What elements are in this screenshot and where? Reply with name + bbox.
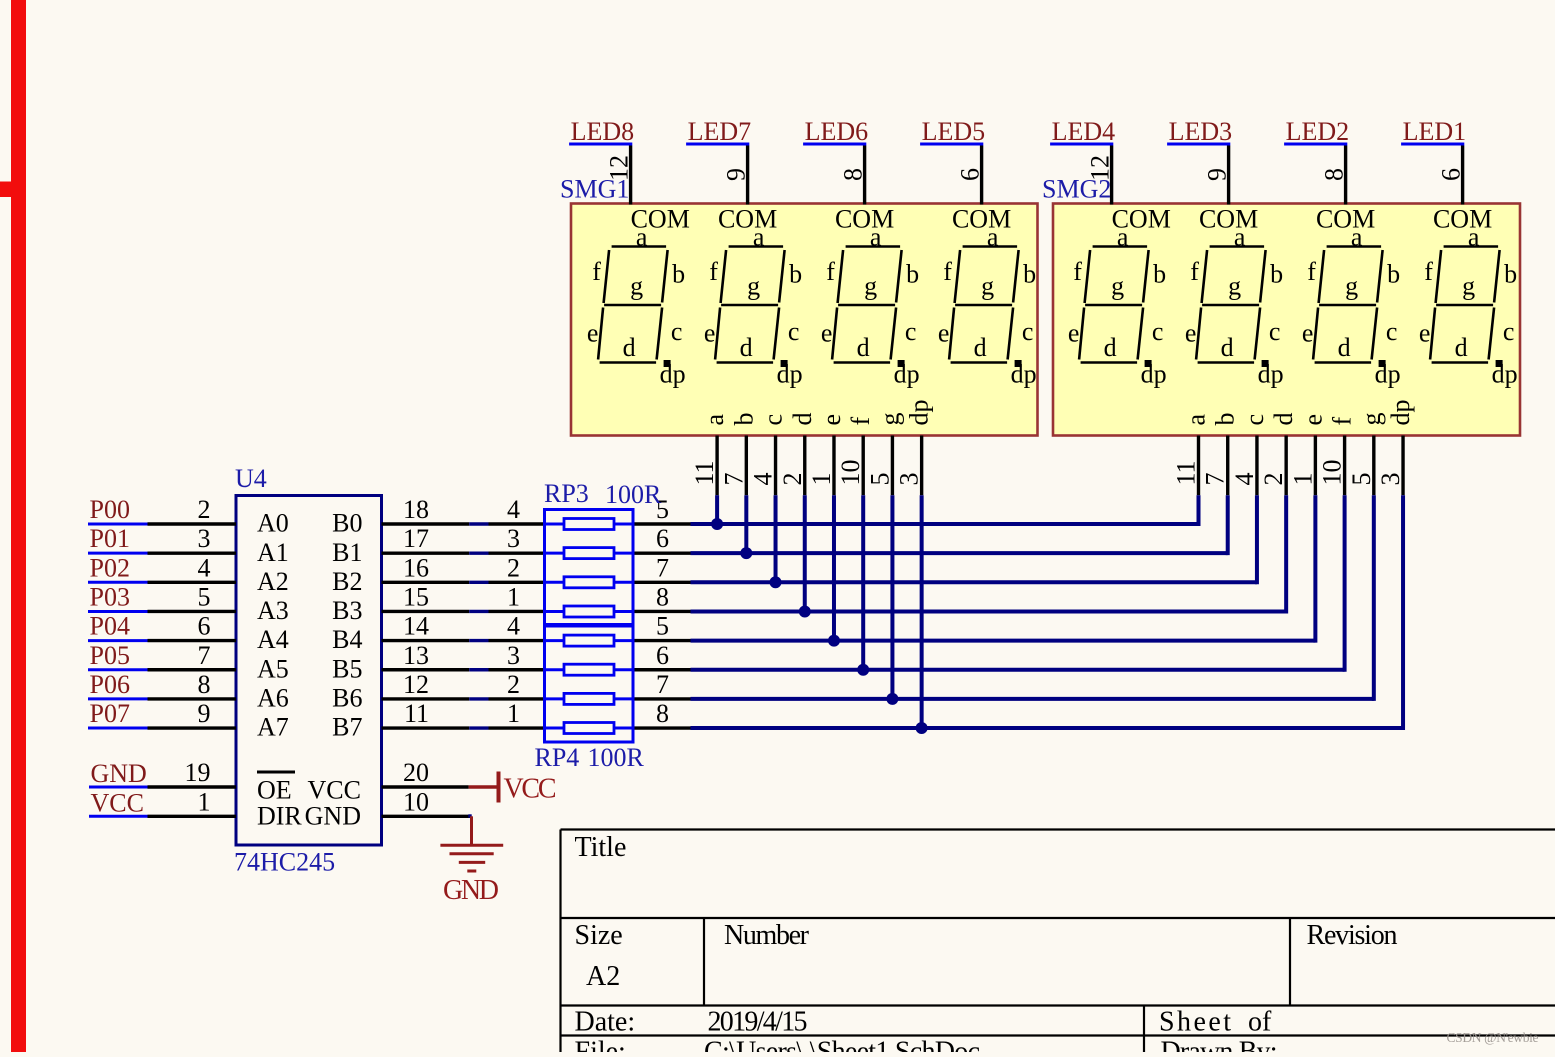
svg-text:1: 1 [198,787,211,816]
resistor pack RP4 body [545,625,634,743]
svg-text:B7: B7 [332,713,362,742]
svg-text:c: c [1152,317,1164,346]
7-seg digit SMG1.4 segments [949,247,1019,363]
wire SMG2 col 5 down [1313,495,1317,642]
svg-text:b: b [1211,413,1240,426]
svg-text:dp: dp [1492,360,1518,389]
U4 pin 12 stub [382,697,470,700]
svg-text:b: b [789,260,802,289]
svg-text:dp: dp [1258,360,1284,389]
svg-text:COM: COM [1433,205,1492,234]
svg-text:d: d [857,333,870,362]
svg-text:d: d [740,333,753,362]
svg-text:3: 3 [895,473,924,486]
svg-text:Sheet: Sheet [1159,1007,1231,1038]
svg-text:b: b [1387,260,1400,289]
7-seg digit SMG2.3 segments [1313,247,1383,363]
net label LED6 underline [803,143,866,146]
svg-text:19: 19 [185,758,211,787]
svg-text:LED7: LED7 [688,117,752,146]
wire LED1 to COM pin [1461,146,1464,205]
svg-text:4: 4 [198,553,211,582]
svg-text:a: a [1351,223,1363,252]
net label P02 underline [88,581,148,584]
display module SMG2 body [1053,204,1520,436]
IC U4 74HC245 body [236,496,382,846]
svg-text:e: e [1185,319,1197,348]
svg-text:VCC: VCC [308,776,361,805]
wire LED3 to COM pin [1227,146,1230,205]
svg-text:18: 18 [403,495,429,524]
display SMG2 pin stub col 4 [1284,436,1287,496]
svg-text:17: 17 [403,524,429,553]
svg-text:2: 2 [507,670,520,699]
U4 pin 10 stub [382,815,471,818]
wire SMG1 col 4 down [803,495,807,611]
svg-text:d: d [623,333,636,362]
wire U4 B1 to RP [469,551,488,554]
svg-text:Title: Title [575,832,627,863]
svg-text:7: 7 [656,670,669,699]
dp dot SMG2.1 [1145,360,1152,367]
resistor RP3 element 1 [545,523,565,526]
display SMG1 pin stub col 7 [891,436,894,496]
svg-text:CSDN @N'ewbie: CSDN @N'ewbie [1447,1030,1539,1045]
svg-text:10: 10 [1318,460,1347,486]
svg-text:6: 6 [198,612,211,641]
svg-text:A1: A1 [257,538,289,567]
display SMG2 pin stub col 6 [1343,436,1346,496]
svg-text:a: a [753,223,765,252]
U4 pin 20 stub [382,785,469,788]
svg-text:B4: B4 [332,625,362,654]
svg-text:a: a [700,414,729,426]
resistor RP3 element 2 [545,552,565,555]
svg-text:COM: COM [835,205,894,234]
svg-text:d: d [1269,413,1298,426]
svg-text:g: g [630,271,643,300]
display SMG1 pin stub col 1 [715,436,718,496]
svg-text:14: 14 [403,612,429,641]
7-seg digit SMG1.2 segments [715,247,785,363]
svg-text:2: 2 [778,473,807,486]
svg-text:RP4: RP4 [535,743,580,772]
svg-text:g: g [875,413,904,426]
svg-text:e: e [704,319,716,348]
svg-text:b: b [1153,260,1166,289]
svg-text:2019/4/15: 2019/4/15 [708,1007,808,1038]
svg-text:LED1: LED1 [1403,117,1467,146]
wire SMG1 col 7 down [890,495,894,699]
svg-text:3: 3 [507,641,520,670]
svg-text:COM: COM [1199,205,1258,234]
dp dot SMG2.3 [1379,360,1386,367]
U4 pin 17 stub [382,551,470,554]
svg-text:12: 12 [1086,155,1115,181]
svg-text:9: 9 [722,168,751,181]
svg-text:b: b [906,260,919,289]
junction dot row 2 [740,547,752,559]
bus wire row 6 [691,668,1345,672]
svg-text:B2: B2 [332,567,362,596]
RP pin 2 stub [489,697,545,700]
svg-text:11: 11 [404,699,429,728]
junction dot row 8 [916,722,928,734]
svg-text:d: d [974,333,987,362]
svg-text:f: f [592,257,601,286]
svg-text:LED2: LED2 [1286,117,1350,146]
svg-text:P03: P03 [90,582,130,611]
net label VCC underline [89,815,148,818]
wire U4 B4 to RP [469,639,488,642]
wire P03 to pin 5 [148,610,237,613]
svg-text:4: 4 [507,612,520,641]
svg-text:4: 4 [749,473,778,486]
RP pin 3 stub [489,668,545,671]
resistor pack RP3 body [545,510,634,627]
net label LED7 underline [686,143,749,146]
segment labels SMG2.1 [1068,205,1171,389]
svg-text:GND: GND [91,759,147,788]
svg-text:8: 8 [656,699,669,728]
svg-text:A2: A2 [257,567,289,596]
svg-text:b: b [672,260,685,289]
svg-text:A7: A7 [257,713,289,742]
svg-text:c: c [1386,317,1398,346]
display SMG1 pin stub col 3 [774,436,777,496]
U4 pin 16 stub [382,581,470,584]
RP pin 7 stub [633,581,691,584]
7-seg digit SMG2.2 segments [1196,247,1266,363]
svg-text:20: 20 [403,758,429,787]
svg-text:e: e [1068,319,1080,348]
power port VCC bar [469,785,498,788]
display SMG1 pin stub col 4 [803,436,806,496]
display SMG2 pin stub col 7 [1372,436,1375,496]
svg-text:c: c [1240,414,1269,426]
svg-text:g: g [1357,413,1386,426]
svg-text:d: d [1221,333,1234,362]
wire SMG1 col 1 down [715,495,719,524]
svg-text:OE: OE [257,776,292,805]
svg-text:7: 7 [198,641,211,670]
RP pin 4 stub [489,522,545,525]
wire SMG1 col 3 down [774,495,778,582]
svg-text:f: f [943,257,952,286]
bus wire row 2 [691,551,1228,555]
segment labels SMG2.3 [1302,205,1401,389]
svg-text:10: 10 [403,787,429,816]
svg-text:12: 12 [403,670,429,699]
svg-text:2: 2 [507,553,520,582]
wire SMG2 col 7 down [1372,495,1376,701]
svg-text:b: b [729,413,758,426]
resistor RP3 element 4 [545,610,565,613]
wire LED7 to COM pin [746,146,749,205]
wire LED6 to COM pin [863,146,866,205]
svg-text:dp: dp [660,360,686,389]
svg-text:VCC: VCC [91,788,144,817]
svg-text:1: 1 [507,582,520,611]
dp dot SMG2.2 [1262,360,1269,367]
wire LED8 to COM pin [629,146,632,205]
net label LED8 underline [569,143,632,146]
svg-text:6: 6 [656,641,669,670]
svg-text:d: d [788,413,817,426]
wire P04 to pin 6 [148,639,237,642]
svg-text:VCC: VCC [504,774,557,805]
svg-text:P00: P00 [90,495,130,524]
resistor RP4 element 3 [545,697,565,700]
svg-text:4: 4 [507,495,520,524]
svg-text:c: c [905,317,917,346]
RP pin 1 stub [489,726,545,729]
svg-text:B3: B3 [332,596,362,625]
resistor RP3 element 3 [545,581,565,584]
title block frame [561,830,1555,1053]
svg-text:dp: dp [1011,360,1037,389]
svg-text:B5: B5 [332,654,362,683]
svg-text:B1: B1 [332,538,362,567]
svg-text:LED8: LED8 [571,117,635,146]
RP pin 3 stub [489,551,545,554]
junction dot row 1 [711,518,723,530]
svg-text:7: 7 [719,473,748,486]
wire SMG1 col 6 down [861,495,865,670]
svg-text:Size: Size [575,920,623,951]
svg-text:c: c [759,414,788,426]
net label LED5 underline [920,143,983,146]
dp dot SMG1.3 [898,360,905,367]
RP pin 8 stub [633,610,691,613]
wire SMG2 col 6 down [1343,495,1347,672]
svg-text:8: 8 [656,582,669,611]
svg-text:Revision: Revision [1307,920,1398,951]
svg-text:c: c [671,317,683,346]
bus wire row 1 [691,522,1199,526]
svg-text:g: g [1345,271,1358,300]
wire P06 to pin 8 [148,697,237,700]
svg-text:A2: A2 [586,961,620,992]
svg-text:dp: dp [894,360,920,389]
display SMG2 pin stub col 2 [1226,436,1229,496]
wire GND to pin 19 [148,785,237,788]
net label P00 underline [88,523,148,526]
net label P05 underline [88,668,148,671]
7-seg digit SMG2.4 segments [1430,247,1500,363]
RP pin 7 stub [633,697,691,700]
net label GND underline [89,786,148,789]
svg-text:c: c [1269,317,1281,346]
wire SMG2 col 1 down [1197,495,1201,526]
svg-text:10: 10 [836,460,865,486]
net label P07 underline [88,727,148,730]
svg-text:8: 8 [1320,168,1349,181]
svg-text:P04: P04 [90,612,130,641]
segment labels SMG1.1 [587,205,690,389]
svg-text:A6: A6 [257,684,289,713]
svg-text:9: 9 [1203,168,1232,181]
wire VCC to pin 1 [148,815,237,818]
wire SMG1 col 2 down [744,495,748,553]
svg-text:f: f [709,257,718,286]
svg-text:P02: P02 [90,553,130,582]
display module SMG1 body [571,204,1038,436]
7-seg digit SMG1.3 segments [832,247,902,363]
svg-text:g: g [747,271,760,300]
svg-text:B6: B6 [332,684,362,713]
svg-text:6: 6 [1437,168,1466,181]
svg-text:A4: A4 [257,625,289,654]
dp dot SMG1.4 [1015,360,1022,367]
svg-text:dp: dp [1386,400,1415,426]
svg-text:6: 6 [656,524,669,553]
display SMG2 pin stub col 8 [1401,436,1404,496]
dp dot SMG1.1 [664,360,671,367]
svg-text:RP3: RP3 [544,479,589,508]
wire U4 B2 to RP [469,581,488,584]
svg-text:A5: A5 [257,654,289,683]
svg-text:LED6: LED6 [805,117,869,146]
svg-text:d: d [1338,333,1351,362]
svg-text:6: 6 [956,168,985,181]
svg-text:a: a [1234,223,1246,252]
wire U4 B7 to RP [469,726,488,729]
display SMG1 pin stub col 5 [832,436,835,496]
RP pin 4 stub [489,639,545,642]
resistor RP4 element 2 [545,668,565,671]
svg-text:f: f [846,417,875,426]
svg-text:c: c [1022,317,1034,346]
svg-text:1: 1 [507,699,520,728]
wire SMG1 col 5 down [832,495,836,640]
display SMG2 pin stub col 3 [1255,436,1258,496]
RP pin 1 stub [489,610,545,613]
svg-text:a: a [1468,223,1480,252]
svg-text:COM: COM [718,205,777,234]
net label LED2 underline [1284,143,1347,146]
svg-text:LED4: LED4 [1052,117,1116,146]
wire LED4 to COM pin [1110,146,1113,205]
svg-text:d: d [1455,333,1468,362]
display SMG2 pin stub col 1 [1197,436,1200,496]
wire SMG2 col 4 down [1284,495,1288,613]
ground symbol [468,814,471,817]
U4 pin 14 stub [382,639,470,642]
wire SMG2 col 2 down [1226,495,1230,555]
svg-text:d: d [1104,333,1117,362]
svg-text:g: g [1228,271,1241,300]
svg-text:1: 1 [807,473,836,486]
RP pin 8 stub [633,726,691,729]
svg-text:P07: P07 [90,699,130,728]
svg-text:9: 9 [198,699,211,728]
wire LED5 to COM pin [980,146,983,205]
net label P06 underline [88,697,148,700]
svg-text:Drawn By:: Drawn By: [1161,1037,1278,1053]
svg-text:b: b [1504,260,1517,289]
sheet border zone tick [0,182,11,198]
svg-text:a: a [987,223,999,252]
net label P04 underline [88,639,148,642]
svg-text:13: 13 [403,641,429,670]
7-seg digit SMG2.1 segments [1079,247,1149,363]
U4 pin 18 stub [382,522,470,525]
svg-text:of: of [1248,1007,1272,1038]
svg-text:g: g [1111,271,1124,300]
svg-text:a: a [870,223,882,252]
wire P00 to pin 2 [148,522,237,525]
svg-text:g: g [981,271,994,300]
svg-text:f: f [1190,257,1199,286]
wire SMG1 col 8 down [920,495,924,728]
display SMG2 pin stub col 5 [1314,436,1317,496]
svg-text:f: f [1328,417,1357,426]
svg-text:8: 8 [839,168,868,181]
svg-text:GND: GND [443,875,499,906]
svg-text:COM: COM [1316,205,1375,234]
svg-text:e: e [938,319,950,348]
svg-text:U4: U4 [235,464,267,493]
svg-text:5: 5 [656,612,669,641]
svg-text:e: e [1302,319,1314,348]
svg-text:11: 11 [1172,460,1201,485]
net label P03 underline [88,610,148,613]
wire SMG2 col 3 down [1255,495,1259,584]
junction dot row 4 [799,606,811,618]
segment labels SMG2.4 [1419,205,1518,389]
svg-text:GND: GND [305,802,361,831]
svg-text:P06: P06 [90,670,130,699]
svg-text:7: 7 [1201,473,1230,486]
RP pin 5 stub [633,639,691,642]
bus wire row 4 [691,609,1287,613]
junction dot row 6 [857,664,869,676]
bus wire row 7 [691,697,1374,701]
svg-text:f: f [1073,257,1082,286]
display SMG1 pin stub col 6 [862,436,865,496]
svg-text:2: 2 [1259,473,1288,486]
RP pin 2 stub [489,581,545,584]
wire U4 B6 to RP [469,697,488,700]
resistor RP4 element 4 [545,727,565,730]
svg-text:e: e [587,319,599,348]
svg-text:c: c [788,317,800,346]
net label P01 underline [88,552,148,555]
dp dot SMG1.2 [781,360,788,367]
svg-text:3: 3 [198,524,211,553]
svg-text:4: 4 [1230,473,1259,486]
segment labels SMG1.4 [938,205,1037,389]
svg-text:g: g [1462,271,1475,300]
svg-text:c: c [1503,317,1515,346]
svg-text:B0: B0 [332,509,362,538]
svg-text:C:\Users\ \Sheet1.SchDoc: C:\Users\ \Sheet1.SchDoc [704,1037,980,1053]
U4 pin 15 stub [382,610,470,613]
sheet border red bar [11,0,26,1052]
svg-text:100R: 100R [605,480,662,509]
svg-text:dp: dp [1141,360,1167,389]
svg-text:f: f [1424,257,1433,286]
wire U4 B3 to RP [469,610,488,613]
svg-text:dp: dp [905,400,934,426]
svg-text:A0: A0 [257,509,289,538]
display SMG1 pin stub col 8 [920,436,923,496]
svg-text:P05: P05 [90,641,130,670]
junction dot row 7 [886,693,898,705]
svg-text:11: 11 [690,460,719,485]
7-seg digit SMG1.1 segments [598,247,668,363]
